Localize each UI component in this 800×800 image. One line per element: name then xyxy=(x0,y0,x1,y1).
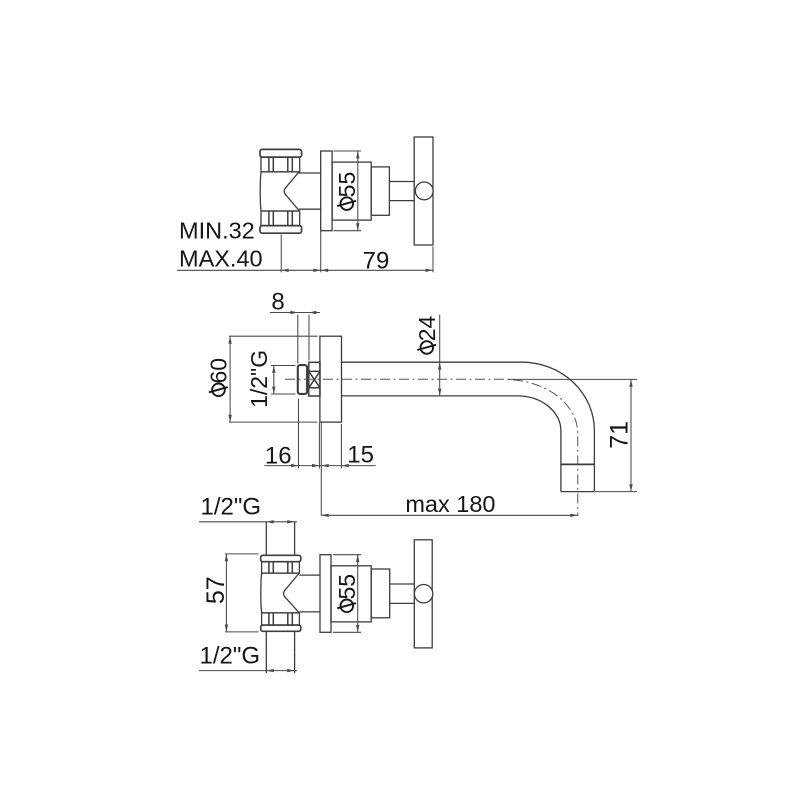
svg-text:16: 16 xyxy=(265,443,292,470)
svg-text:71: 71 xyxy=(606,421,634,449)
svg-text:79: 79 xyxy=(363,247,390,274)
svg-text:55: 55 xyxy=(334,172,360,198)
svg-text:1/2"G: 1/2"G xyxy=(200,642,261,669)
svg-text:15: 15 xyxy=(347,442,374,469)
svg-text:55: 55 xyxy=(334,574,360,600)
svg-text:24: 24 xyxy=(414,315,440,341)
svg-text:8: 8 xyxy=(271,289,284,316)
svg-text:60: 60 xyxy=(206,358,232,384)
svg-text:max 180: max 180 xyxy=(405,491,495,517)
svg-text:1/2"G: 1/2"G xyxy=(246,350,272,408)
svg-text:MAX.40: MAX.40 xyxy=(179,246,263,272)
svg-text:57: 57 xyxy=(202,576,230,604)
svg-text:MIN.32: MIN.32 xyxy=(179,218,255,244)
svg-text:1/2"G: 1/2"G xyxy=(201,493,262,520)
